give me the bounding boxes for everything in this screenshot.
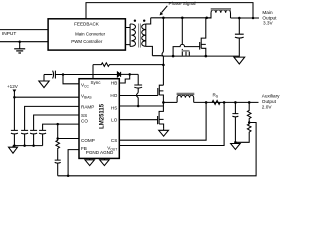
wire HO pin (119, 95, 158, 97)
node cap3 rail (32, 144, 35, 147)
resistor comp (56, 139, 60, 150)
transformer T1 secondary winding (142, 24, 146, 46)
svg-text:INPUT: INPUT (2, 31, 16, 37)
svg-text:Output: Output (262, 15, 277, 20)
svg-text:HB: HB (111, 81, 117, 86)
svg-text:2.0V: 2.0V (262, 104, 273, 109)
IC U1 LM25115 box (79, 79, 119, 159)
node VOUT sense (223, 101, 226, 104)
svg-text:Sync: Sync (91, 80, 102, 85)
node +12V (13, 96, 16, 99)
wire phase vertical (162, 18, 163, 85)
wire bottom rectifier rail (152, 55, 239, 57)
transistor Q2 aux low-side (158, 102, 164, 128)
node +12V supply arrow (13, 90, 17, 93)
capacitor aux output (232, 102, 238, 142)
node boot-HS (137, 105, 140, 108)
svg-text:+12V: +12V (7, 84, 19, 89)
transistor Q4 main rect A (200, 18, 206, 56)
node feedback tap (252, 17, 255, 20)
node rail-fetA source (205, 55, 208, 58)
node COMP tap (56, 137, 59, 140)
transistor Q3 contact stubs (182, 52, 189, 56)
node input ground tap (18, 40, 21, 43)
inductor L1 core bars (211, 9, 231, 10)
svg-text:LM25115: LM25115 (100, 103, 106, 129)
wire +12V stem (13, 90, 15, 97)
wire SS pin (34, 115, 79, 131)
resistor sync (phase to sync) (93, 63, 163, 67)
node CS sense (205, 101, 208, 104)
svg-text:Main Converter: Main Converter (75, 32, 106, 37)
wire aux switch line (163, 101, 177, 103)
wire feedback top (86, 3, 253, 19)
wire fetB gate from rail (hop) (173, 44, 200, 56)
node aux divider tap (248, 101, 251, 104)
node switch aux (162, 101, 165, 104)
wire +12V down to cap1 (13, 97, 15, 130)
wire VOUT pin (119, 102, 224, 145)
op-amp U? main converter box (48, 19, 125, 50)
resistor RS sense (212, 100, 220, 104)
node main cap tap (238, 17, 241, 20)
svg-text:HS: HS (111, 105, 117, 110)
ground AGND (100, 158, 110, 165)
transistor Q3 channel bar (182, 50, 190, 52)
capacitor main output (235, 18, 244, 56)
capacitor C2 (RAMP) (21, 130, 28, 145)
wire primary leads (125, 24, 131, 46)
svg-text:Main: Main (262, 10, 273, 15)
svg-text:RAMP: RAMP (81, 104, 94, 109)
resistor R2 divider lower (235, 119, 251, 142)
capacitor C1 (+12V) (11, 130, 18, 145)
wire top rail (151, 17, 211, 19)
ground caps row (9, 146, 18, 154)
wire LO pin (119, 119, 157, 121)
svg-text:PWM Controller: PWM Controller (71, 39, 103, 44)
node fet B drain (181, 17, 184, 20)
node phase (162, 17, 165, 20)
node primary polarity dot (134, 20, 136, 22)
ground aux output (231, 142, 241, 149)
wire caps ground rail (13, 145, 43, 147)
ground vcc cap (triangle) (39, 75, 49, 88)
node INPUT top wire (0, 29, 48, 31)
inductor L2 aux (177, 95, 258, 102)
wire fetB under hop (181, 49, 183, 50)
wire COMP pin (58, 138, 79, 140)
capacitor C4 (CO) (39, 130, 46, 145)
ground input (3-bar) (14, 42, 25, 53)
node aux ground (234, 141, 237, 144)
wire CS pin (119, 102, 206, 140)
wire HS pin (119, 105, 163, 107)
wire CO pin (43, 124, 79, 130)
wire VBIAS pin (14, 96, 79, 98)
wire vcc rail left corner (44, 74, 52, 76)
svg-text:Output: Output (262, 99, 277, 104)
svg-text:Phase Signal: Phase Signal (169, 1, 196, 6)
node inductor left (205, 17, 208, 20)
node cap2 rail (23, 144, 26, 147)
wire CO-COMP junction (57, 124, 59, 138)
node rail-fetB source (172, 55, 175, 58)
capacitor vcc decoupling (53, 71, 56, 79)
node secondary polarity dot (143, 20, 145, 22)
ground Q2 source (159, 129, 169, 136)
transformer T1 primary winding (131, 24, 135, 46)
svg-text:FEEDBACK: FEEDBACK (74, 22, 100, 27)
wire secondary top lead (146, 18, 151, 24)
capacitor C3 (SS) (30, 130, 37, 145)
wire vcc rail (55, 74, 117, 76)
wire feedback bottom rail (58, 123, 256, 176)
svg-text:CS: CS (111, 138, 117, 143)
diode bootstrap (117, 72, 120, 77)
svg-text:CO: CO (81, 119, 88, 124)
node FB rail (67, 175, 70, 178)
node sync branch junction (162, 64, 165, 67)
wire bootstrap to HS (hops HO) (137, 88, 139, 106)
wire RAMP pin (25, 106, 79, 130)
transistor Q3 main rect B: drain riser (181, 18, 183, 45)
resistor R1 divider upper (247, 102, 251, 119)
svg-text:LO: LO (111, 118, 118, 123)
svg-text:PGND: PGND (86, 150, 100, 155)
svg-text:3.3V: 3.3V (263, 21, 274, 26)
wire phase signal arrow (162, 6, 168, 13)
wire sync pin riser (92, 65, 94, 79)
ground PGND (85, 158, 95, 165)
svg-text:Auxiliary: Auxiliary (262, 93, 280, 98)
svg-text:COMP: COMP (81, 138, 95, 143)
svg-text:HO: HO (110, 93, 117, 98)
wire secondary bottom lead (146, 46, 153, 55)
node divider mid (248, 121, 251, 124)
node cap1 rail (13, 144, 16, 147)
wire FB pin (68, 150, 79, 176)
inductor L1 main output (207, 10, 259, 18)
inductor L2 core bars (177, 93, 195, 94)
wire vcc pin (63, 75, 79, 84)
wire input bottom (0, 41, 48, 43)
transistor Q1 aux high-side (158, 85, 164, 102)
node CO tap (56, 123, 59, 126)
svg-text:SS: SS (81, 113, 87, 118)
node HB tap (128, 73, 131, 76)
transformer core (139, 24, 141, 48)
node vcc tap (62, 73, 65, 76)
capacitor bootstrap (134, 74, 142, 88)
node aux cap tap (234, 101, 237, 104)
svg-text:AGND: AGND (100, 150, 114, 155)
wire HB pin (119, 74, 129, 83)
capacitor comp (55, 149, 61, 175)
ground main output (234, 56, 245, 64)
